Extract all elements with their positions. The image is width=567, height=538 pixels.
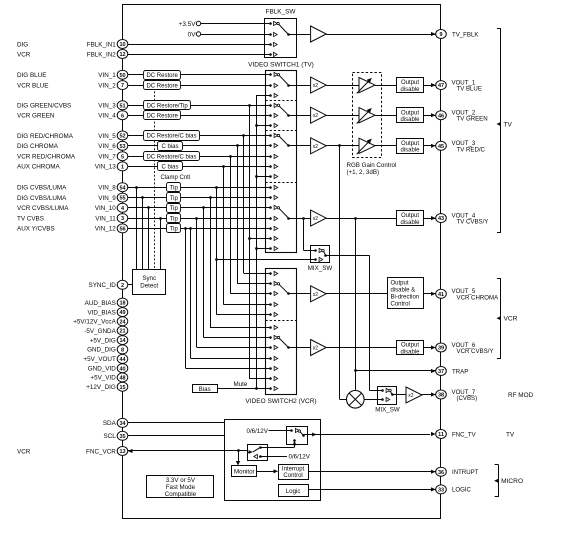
wire VIN_6: [128, 145, 266, 147]
label VIN_10: [95, 205, 117, 212]
svg-text:Detect: Detect: [140, 283, 158, 290]
sync tap VIN_11: [159, 217, 162, 269]
svg-text:FBLK_IN1: FBLK_IN1: [87, 41, 117, 48]
wire VIN_9: [128, 197, 266, 199]
bus VIN_3 to VSW1 sec4 and VSW2: [248, 104, 265, 379]
wire INTRUPT: [308, 470, 436, 474]
wire SDA: [128, 422, 225, 424]
label +5V/12V_VccA: [73, 319, 116, 326]
Output disable box VOUT_1: [397, 78, 436, 93]
pin 36: [436, 467, 447, 476]
pin 2: [117, 280, 128, 289]
label VID_BIAS: [87, 309, 115, 316]
MIX_SW switch 2: [375, 387, 400, 414]
wire FBLK_IN1: [128, 44, 265, 46]
svg-text:MICRO: MICRO: [501, 478, 523, 485]
label VCR BLUE: [17, 82, 49, 89]
svg-text:VCR BLUE: VCR BLUE: [17, 82, 49, 89]
wire TRAP: [355, 369, 435, 373]
wire VOUT_3 branch to RF mixer: [338, 144, 346, 399]
label VCR: [17, 51, 31, 58]
svg-text:14: 14: [119, 338, 126, 344]
svg-text:disable: disable: [400, 117, 420, 123]
wire VIN_2: [128, 85, 266, 87]
RF mixer: [347, 391, 378, 409]
bus VIN_7 to VSW2: [229, 155, 265, 294]
svg-text:C bias: C bias: [161, 144, 178, 150]
pin 1: [117, 162, 128, 171]
x2 amp VOUT_1: [297, 77, 361, 93]
svg-text:x2: x2: [313, 113, 319, 119]
svg-text:7: 7: [121, 83, 124, 89]
svg-text:12: 12: [119, 52, 125, 58]
svg-text:TV CVBS: TV CVBS: [17, 215, 44, 222]
svg-text:C bias: C bias: [161, 165, 178, 171]
label FBLK_IN2: [87, 51, 117, 58]
label FBLK_IN1: [87, 41, 117, 48]
svg-text:+5V_VOUT: +5V_VOUT: [83, 356, 116, 363]
0V terminal: [188, 31, 201, 38]
label VIN_6: [98, 143, 116, 150]
svg-text:DC Restore: DC Restore: [146, 113, 178, 119]
label VOUT_6: [452, 342, 494, 355]
pin 40: [117, 364, 128, 373]
pin 38: [436, 390, 447, 399]
svg-text:15: 15: [119, 385, 125, 391]
RGB gain control dashed box: [347, 73, 397, 177]
pin 41: [436, 289, 447, 298]
Logic box: [279, 485, 309, 497]
x2 amp VOUT_7: [397, 387, 436, 403]
TV group bracket: [497, 28, 513, 233]
pin 13: [117, 447, 128, 456]
sync tap VIN_8: [135, 186, 138, 269]
x2 amp VOUT_4: [297, 210, 397, 226]
label +5V_VOUT: [83, 356, 116, 363]
bus VIN_5 to VSW2: [242, 134, 265, 273]
svg-text:13: 13: [119, 449, 125, 455]
label SDA: [103, 420, 117, 427]
svg-text:DC Restore: DC Restore: [146, 83, 178, 89]
svg-text:36: 36: [438, 470, 444, 476]
svg-text:x2: x2: [313, 346, 319, 352]
svg-text:FBLK_SW: FBLK_SW: [266, 9, 297, 16]
svg-text:0/6/12V: 0/6/12V: [247, 428, 269, 435]
Output disable box VOUT_4: [397, 211, 436, 226]
label DIG RED/CHROMA: [17, 133, 74, 140]
label VCR CVBS/LUMA: [17, 205, 69, 212]
svg-text:+12V_DIG: +12V_DIG: [86, 384, 116, 391]
pin 45: [436, 141, 447, 150]
svg-text:Tip: Tip: [170, 196, 179, 202]
svg-text:x2: x2: [313, 83, 319, 89]
pin 52: [117, 131, 128, 140]
pin 15: [117, 382, 128, 391]
pin 10: [117, 40, 128, 49]
svg-text:Tip: Tip: [170, 227, 179, 233]
Tip box VIN_9: [167, 193, 181, 203]
x2 amp VOUT_6: [296, 340, 397, 356]
svg-text:INTRUPT: INTRUPT: [452, 469, 479, 476]
label VOUT_1: [452, 79, 482, 92]
clamp control dashed line: [154, 76, 156, 270]
svg-text:SCL: SCL: [104, 433, 117, 440]
control block box: [225, 420, 321, 501]
svg-text:FBLK_IN2: FBLK_IN2: [87, 51, 117, 58]
svg-text:56: 56: [119, 227, 125, 233]
bus VIN_12 to VSW2: [189, 227, 265, 359]
svg-text:43: 43: [438, 216, 444, 222]
svg-text:TV BLUE: TV BLUE: [457, 86, 482, 93]
svg-text:5: 5: [121, 154, 124, 160]
label +5V_VID: [90, 375, 116, 382]
svg-text:AUX Y/CVBS: AUX Y/CVBS: [17, 226, 55, 233]
svg-text:Compatible: Compatible: [165, 491, 197, 498]
svg-text:VIN_8: VIN_8: [98, 185, 116, 192]
svg-text:DIG CVBS/LUMA: DIG CVBS/LUMA: [17, 195, 67, 202]
VCR group bracket: [497, 279, 518, 359]
DC Restore/C bias box VIN_7: [144, 152, 200, 161]
label DIG CHROMA: [17, 143, 59, 150]
label VOUT_3: [452, 140, 486, 153]
wire FNC_VCR: [128, 449, 248, 466]
svg-text:VIN_5: VIN_5: [98, 133, 116, 140]
svg-text:Bi-drection: Bi-drection: [391, 295, 420, 301]
wire VIN_11: [128, 218, 266, 220]
wire VIN_13: [128, 166, 266, 168]
svg-text:(+1, 2, 3dB): (+1, 2, 3dB): [347, 169, 380, 176]
svg-text:11: 11: [438, 432, 444, 438]
svg-text:DIG CHROMA: DIG CHROMA: [17, 143, 59, 150]
bus VIN_6 to VSW2: [236, 144, 265, 284]
svg-text:6: 6: [121, 113, 124, 119]
label VIN_2: [98, 82, 116, 89]
pin 4: [117, 203, 128, 212]
svg-text:(CVBS): (CVBS): [457, 395, 478, 402]
svg-text:53: 53: [119, 144, 125, 150]
bus VIN_8 to VSW2: [215, 186, 265, 315]
svg-text:TV CVBS/Y: TV CVBS/Y: [457, 219, 489, 226]
label DIG CVBS/LUMA: [17, 195, 67, 202]
wire 0V to FBLK_SW: [201, 34, 265, 36]
svg-text:1: 1: [121, 165, 124, 171]
svg-text:FNC_VCR: FNC_VCR: [86, 448, 116, 455]
label VIN_1: [98, 72, 116, 79]
svg-text:37: 37: [438, 369, 444, 375]
FNC_TV switch: [287, 427, 436, 445]
DC Restore/C bias box VIN_5: [144, 131, 200, 141]
bias net vertical: [255, 95, 265, 390]
svg-text:VID_BIAS: VID_BIAS: [87, 309, 115, 316]
svg-text:48: 48: [119, 376, 125, 382]
svg-text:Output: Output: [401, 343, 419, 349]
pin 24: [117, 317, 128, 326]
pin 33: [436, 485, 447, 494]
Mute wire: [218, 381, 266, 388]
svg-text:Clamp Cntl: Clamp Cntl: [161, 175, 191, 181]
wire VIN_8: [128, 187, 266, 189]
svg-text:DIG GREEN/CVBS: DIG GREEN/CVBS: [17, 103, 71, 110]
svg-text:Bias: Bias: [199, 386, 211, 393]
svg-text:50: 50: [119, 73, 125, 79]
pin 8: [117, 345, 128, 354]
svg-text:TV GREEN: TV GREEN: [457, 116, 488, 123]
label DIG: [17, 41, 28, 48]
svg-text:DIG CVBS/LUMA: DIG CVBS/LUMA: [17, 185, 67, 192]
pin 7: [117, 81, 128, 90]
svg-text:GND_DIG: GND_DIG: [87, 347, 116, 354]
svg-text:DC Restore: DC Restore: [146, 73, 178, 79]
wire MIX_SW1 output down: [330, 255, 378, 390]
label VOUT_7: [452, 389, 478, 402]
svg-text:MIX_SW: MIX_SW: [308, 265, 333, 272]
0/6/12V label TV: [247, 428, 287, 435]
label VIN_13: [95, 164, 117, 171]
svg-text:Control: Control: [283, 473, 302, 479]
bus VIN_13 to VSW2: [222, 165, 265, 305]
Output disable box VOUT_3: [397, 139, 436, 154]
svg-text:VIDEO SWITCH1 (TV): VIDEO SWITCH1 (TV): [248, 62, 314, 69]
pin 11: [436, 430, 447, 439]
Tip box VIN_10: [167, 204, 181, 213]
wire SYNC_ID: [128, 284, 133, 286]
svg-text:Tip: Tip: [170, 216, 179, 222]
pin 43: [436, 214, 447, 223]
svg-text:disable: disable: [400, 220, 420, 226]
svg-text:2: 2: [121, 283, 124, 289]
svg-text:x2: x2: [313, 292, 319, 298]
svg-text:VCR: VCR: [504, 316, 518, 323]
label INTRUPT: [452, 469, 479, 476]
Bias box: [193, 385, 218, 394]
gain amp VOUT_1: [357, 78, 397, 94]
svg-text:VCR CVBS/LUMA: VCR CVBS/LUMA: [17, 205, 69, 212]
svg-text:Monitor: Monitor: [234, 469, 255, 476]
+3.5V terminal: [179, 21, 201, 28]
DC Restore box VIN_1: [144, 71, 181, 80]
svg-text:VIN_4: VIN_4: [98, 113, 116, 120]
Monitor box: [232, 466, 257, 477]
label VIN_7: [98, 154, 116, 161]
pin 6: [117, 111, 128, 120]
svg-text:VCR: VCR: [17, 448, 31, 455]
wire SCL: [128, 435, 225, 437]
label DIG GREEN/CVBS: [17, 103, 71, 110]
svg-text:VIDEO SWITCH2 (VCR): VIDEO SWITCH2 (VCR): [245, 398, 316, 405]
bus VIN_11 to VSW2: [195, 217, 265, 347]
svg-text:Output: Output: [391, 281, 409, 287]
wire VIN_8 tap to MIX_SW: [215, 258, 310, 261]
svg-text:disable &: disable &: [391, 288, 416, 294]
label VCR: [17, 448, 31, 455]
wire VIN_12: [128, 228, 266, 230]
svg-text:18: 18: [119, 301, 125, 307]
pin 5: [117, 152, 128, 161]
svg-text:54: 54: [119, 185, 126, 191]
svg-text:46: 46: [438, 113, 444, 119]
svg-text:x2: x2: [408, 393, 414, 399]
svg-text:VCR CHROMA: VCR CHROMA: [457, 294, 500, 301]
svg-text:TRAP: TRAP: [452, 368, 468, 375]
pin 34: [117, 418, 128, 427]
pin 35: [117, 431, 128, 440]
wire VIN_7: [128, 156, 266, 158]
label +12V_DIG: [86, 384, 116, 391]
svg-text:AUD_BIAS: AUD_BIAS: [85, 300, 116, 307]
svg-text:DIG: DIG: [17, 41, 28, 48]
label VOUT_4: [452, 212, 489, 225]
label VIN_5: [98, 133, 116, 140]
pin 49: [117, 308, 128, 317]
wire VIN_4: [128, 115, 266, 117]
MICRO group bracket: [494, 465, 523, 498]
svg-text:VIN_3: VIN_3: [98, 103, 116, 110]
label LOGIC: [452, 487, 472, 494]
label VCR GREEN: [17, 113, 55, 120]
svg-text:VCR GREEN: VCR GREEN: [17, 113, 55, 120]
svg-text:VIN_2: VIN_2: [98, 82, 116, 89]
svg-text:Output: Output: [401, 80, 419, 86]
svg-text:VIN_13: VIN_13: [95, 164, 117, 171]
label AUX CHROMA: [17, 164, 60, 171]
Tip box VIN_11: [167, 214, 181, 223]
pin 12: [117, 50, 128, 59]
Output disable box VOUT_2: [397, 108, 436, 123]
sync tap VIN_10: [147, 206, 150, 269]
Sync Detect box: [133, 270, 166, 295]
svg-text:DIG BLUE: DIG BLUE: [17, 72, 46, 79]
svg-text:Mute: Mute: [234, 381, 248, 388]
svg-text:TV: TV: [506, 431, 515, 438]
svg-text:Interrupt: Interrupt: [282, 466, 305, 472]
pin 55: [117, 193, 128, 202]
Tip box VIN_8: [167, 183, 181, 192]
svg-text:SYNC_ID: SYNC_ID: [89, 282, 117, 289]
pin 50: [117, 70, 128, 79]
svg-text:Control: Control: [391, 302, 410, 308]
svg-text:TV: TV: [504, 121, 513, 128]
MIX_SW switch 1: [308, 246, 333, 272]
svg-text:21: 21: [119, 329, 125, 335]
pin 39: [436, 343, 447, 352]
svg-text:-5V_GNDA: -5V_GNDA: [84, 328, 116, 335]
svg-text:DIG RED/CHROMA: DIG RED/CHROMA: [17, 133, 74, 140]
svg-text:Sync: Sync: [142, 275, 156, 282]
svg-text:VIN_9: VIN_9: [98, 195, 116, 202]
label DIG CVBS/LUMA: [17, 185, 67, 192]
label VCR RED/CHROMA: [17, 154, 76, 161]
svg-text:+5V_DIG: +5V_DIG: [90, 337, 116, 344]
VIDEO SWITCH1 (TV): [248, 62, 314, 253]
label -5V_GNDA: [84, 328, 116, 335]
svg-text:39: 39: [438, 346, 444, 352]
C bias box VIN_13: [158, 162, 183, 171]
0/6/12V label VCR: [259, 454, 311, 461]
label VIN_12: [95, 226, 117, 233]
svg-text:10: 10: [119, 42, 125, 48]
svg-text:LOGIC: LOGIC: [452, 487, 472, 494]
svg-text:VIN_1: VIN_1: [98, 72, 116, 79]
gain amp VOUT_3: [357, 138, 397, 154]
pin 44: [117, 354, 128, 363]
Output disable bi-direction box VOUT_5: [388, 278, 436, 309]
svg-text:52: 52: [119, 134, 125, 140]
pin 46: [436, 111, 447, 120]
wire VIN_5: [128, 135, 266, 137]
svg-text:44: 44: [119, 357, 126, 363]
svg-text:51: 51: [119, 103, 125, 109]
svg-text:33: 33: [438, 488, 444, 494]
wire +3.5V to FBLK_SW: [201, 23, 265, 25]
svg-text:45: 45: [438, 144, 444, 150]
label VIN_4: [98, 113, 116, 120]
Tip box VIN_12: [167, 224, 181, 233]
IC boundary box: [123, 5, 441, 519]
svg-text:disable: disable: [400, 87, 420, 93]
pin 18: [117, 298, 128, 307]
svg-text:41: 41: [438, 292, 444, 298]
pin 56: [117, 224, 128, 233]
svg-text:TV RED/C: TV RED/C: [457, 146, 486, 153]
label FNC_VCR: [86, 448, 116, 455]
svg-text:Fast Mode: Fast Mode: [166, 484, 196, 491]
svg-text:TV_FBLK: TV_FBLK: [452, 31, 478, 38]
DC Restore box VIN_4: [144, 111, 181, 120]
svg-text:47: 47: [438, 83, 444, 89]
label VOUT_5: [452, 288, 500, 301]
label VIN_3: [98, 103, 116, 110]
svg-text:3: 3: [121, 216, 124, 222]
svg-text:24: 24: [119, 319, 126, 325]
svg-text:RF MOD: RF MOD: [508, 392, 534, 399]
label VIN_8: [98, 185, 116, 192]
svg-text:x2: x2: [313, 216, 319, 222]
svg-text:VCR CVBS/Y: VCR CVBS/Y: [457, 348, 494, 355]
label VIN_9: [98, 195, 116, 202]
label SYNC_ID: [89, 282, 117, 289]
svg-text:VIN_10: VIN_10: [95, 205, 117, 212]
label GND_DIG: [87, 347, 116, 354]
svg-text:VCR RED/CHROMA: VCR RED/CHROMA: [17, 154, 76, 161]
svg-text:FNC_TV: FNC_TV: [452, 431, 477, 438]
svg-text:55: 55: [119, 196, 125, 202]
label GND_VID: [88, 366, 116, 373]
label TRAP: [452, 368, 468, 375]
svg-text:35: 35: [119, 434, 125, 440]
wire LOGIC: [308, 487, 436, 491]
svg-text:DC Restore/C bias: DC Restore/C bias: [146, 154, 196, 160]
label SCL: [104, 433, 117, 440]
label FNC_TV: [452, 431, 477, 438]
svg-text:Output: Output: [401, 141, 419, 147]
svg-text:Tip: Tip: [170, 206, 179, 212]
svg-text:MIX_SW: MIX_SW: [375, 407, 400, 414]
wire VOUT_4 branch to TRAP and mixer: [354, 218, 357, 390]
svg-text:VIN_12: VIN_12: [95, 226, 117, 233]
svg-text:34: 34: [119, 421, 126, 427]
svg-text:GND_VID: GND_VID: [88, 366, 116, 373]
sync tap VIN_9: [141, 196, 144, 269]
wire VIN_3: [128, 105, 266, 107]
svg-text:3.3V or 5V: 3.3V or 5V: [166, 477, 196, 484]
Clamp Cntl label: [161, 175, 191, 181]
label AUD_BIAS: [85, 300, 116, 307]
svg-text:DC Restore/C bias: DC Restore/C bias: [146, 134, 196, 140]
pin 21: [117, 326, 128, 335]
svg-text:VCR: VCR: [17, 51, 31, 58]
svg-text:RGB Gain Control: RGB Gain Control: [347, 162, 397, 169]
label TV right: [506, 431, 515, 438]
